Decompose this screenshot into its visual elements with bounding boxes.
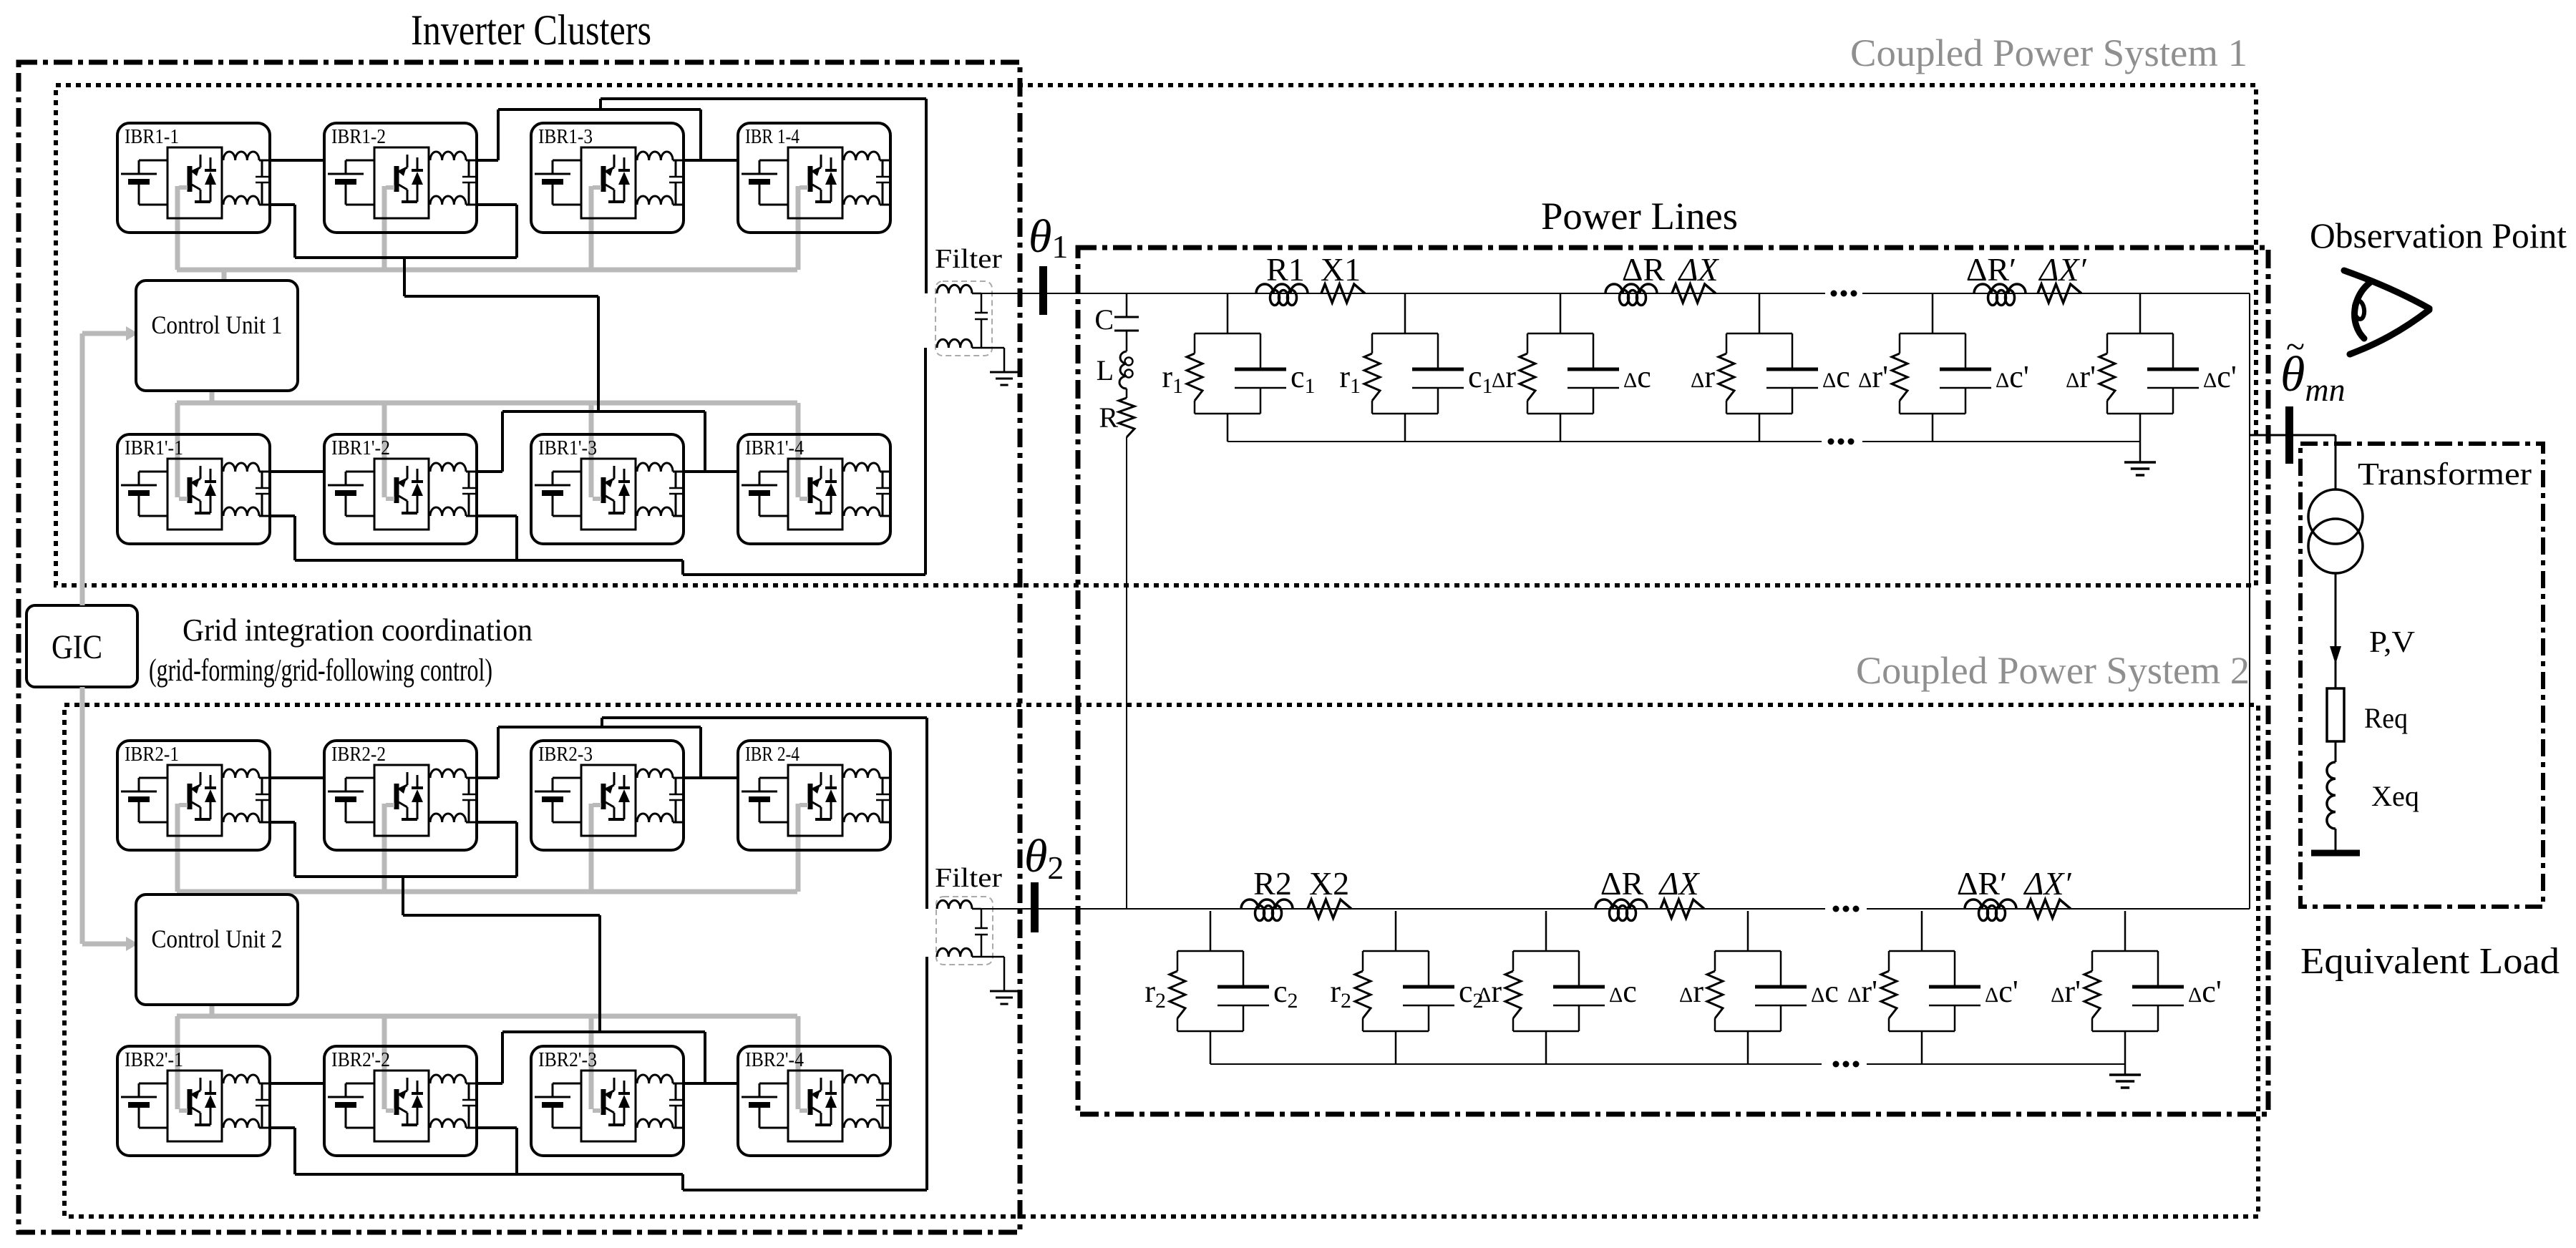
IBR converter block IBR1'-3: [531, 434, 684, 544]
power line 1 return conductor: [1228, 441, 2140, 442]
svg-text:ΔR: ΔR: [1600, 865, 1644, 902]
bus theta_mn: [2285, 406, 2293, 464]
IBR converter block IBR1'-4: [738, 434, 891, 544]
svg-text:IBR1-2: IBR1-2: [331, 126, 386, 148]
svg-text:IBR2'-4: IBR2'-4: [745, 1049, 804, 1071]
dash-dot box: Equivalent Load: [2300, 444, 2543, 907]
svg-text:Filter: Filter: [935, 863, 1002, 893]
svg-text:ΔX′: ΔX′: [2023, 865, 2071, 902]
wire: lower row top-output chain: [271, 1032, 737, 1083]
ground (filter): [990, 372, 1019, 385]
shunt section &#916;r||&#916;c: [1691, 293, 1850, 442]
svg-text:Equivalent Load: Equivalent Load: [2300, 941, 2560, 982]
control bus: Control Unit 2 to lower IBR gates: [177, 1005, 798, 1109]
wire: lower row bottom bus to filter: [271, 957, 927, 1190]
svg-text:L: L: [1097, 354, 1114, 386]
svg-text:IBR1-3: IBR1-3: [538, 126, 593, 148]
IBR converter block IBR2'-3: [531, 1046, 684, 1156]
shunt section r||c: [1339, 293, 1492, 442]
observation eye: [2344, 270, 2429, 354]
shunt section &#916;r||&#916;c: [1847, 911, 2018, 1064]
svg-text:IBR1'-4: IBR1'-4: [745, 437, 804, 459]
ellipsis top line 1: [1831, 291, 1857, 297]
svg-text:ΔX: ΔX: [1658, 865, 1700, 902]
svg-text:R1: R1: [1266, 251, 1305, 288]
control wire: GIC to Control Unit 2: [82, 687, 138, 951]
label Equivalent Load: [2300, 941, 2560, 982]
svg-text:IBR1-1: IBR1-1: [125, 126, 179, 148]
shunt section &#916;r||&#916;c: [2066, 293, 2237, 442]
Filter block: [936, 897, 1004, 991]
label Transformer: [2358, 457, 2532, 492]
power line 2 top conductor: [972, 908, 2250, 910]
svg-text:R: R: [1099, 401, 1118, 434]
shunt C-L-R branch: [1114, 293, 1139, 909]
ellipsis return line 1: [1828, 439, 1855, 445]
dotted box: Coupled Power System 1: [56, 85, 2256, 585]
svg-text:Grid integration coordination: Grid integration coordination: [183, 613, 533, 648]
svg-text:IBR1'-3: IBR1'-3: [538, 437, 597, 459]
IBR converter block IBR2'-4: [738, 1046, 891, 1156]
wire: upper row top-output chain: [271, 727, 737, 778]
IBR converter block IBR1'-1: [117, 434, 271, 544]
svg-text:IBR2'-3: IBR2'-3: [538, 1049, 597, 1071]
dash-dot box: Inverter Clusters: [19, 62, 1020, 1232]
bus theta2: [1024, 830, 1064, 932]
svg-text:X2: X2: [1309, 865, 1349, 902]
svg-text:IBR2-1: IBR2-1: [125, 744, 179, 766]
svg-text:Control Unit 1: Control Unit 1: [152, 311, 283, 339]
svg-text:IBR2'-2: IBR2'-2: [331, 1049, 390, 1071]
svg-text:Observation Point: Observation Point: [2310, 215, 2567, 255]
shunt section &#916;r||&#916;c: [1492, 293, 1651, 442]
node theta_mn label: [2280, 328, 2346, 408]
control bus: Control Unit 1 to upper IBR gates: [177, 186, 798, 281]
wire: upper row bottom bus: [271, 822, 600, 1032]
labels C L R: [1094, 303, 1118, 434]
IBR converter block IBR2'-1: [117, 1046, 271, 1156]
svg-text:IBR2'-1: IBR2'-1: [125, 1049, 183, 1071]
shunt section r||c: [1330, 911, 1483, 1064]
series impedance dR' dX' (line 2): [1957, 865, 2072, 921]
series impedance R2 X2: [1241, 865, 1351, 921]
wire: upper row top-output chain: [271, 109, 737, 160]
svg-text:R2: R2: [1253, 865, 1292, 902]
control bus: Control Unit 1 to lower IBR gates: [177, 391, 798, 497]
label Req: [2364, 702, 2408, 734]
svg-text:X1: X1: [1321, 251, 1361, 288]
wire: lower row bottom bus to filter: [271, 348, 925, 575]
label: Grid integration coordination: [183, 613, 533, 648]
wire: lower row top-output chain: [271, 411, 737, 472]
title: Power Lines: [1541, 195, 1738, 238]
svg-text:Inverter Clusters: Inverter Clusters: [411, 6, 651, 54]
wire with P,V arrow: [2330, 573, 2341, 688]
transformer: [2308, 489, 2363, 573]
Filter label: [935, 863, 1002, 893]
GIC box: [26, 605, 137, 687]
series impedance dR dX (line 1): [1605, 251, 1719, 306]
series impedance dR dX (line 2): [1595, 865, 1704, 921]
wire: branch to filter top: [601, 99, 926, 293]
wire: upper row bottom bus: [271, 205, 598, 411]
IBR converter block IBR1-1: [117, 123, 271, 233]
bus theta1: [1029, 210, 1068, 315]
IBR converter block IBR1-2: [324, 123, 477, 233]
svg-text:~: ~: [2286, 328, 2305, 366]
label P,V: [2369, 626, 2415, 659]
svg-text:Req: Req: [2364, 702, 2408, 734]
shunt section &#916;r||&#916;c: [1477, 911, 1637, 1064]
title: Inverter Clusters: [411, 6, 651, 54]
svg-text:GIC: GIC: [52, 628, 102, 666]
shunt section r||c: [1144, 911, 1298, 1064]
Control Unit 2: [136, 894, 298, 1005]
IBR converter block IBR2-2: [324, 741, 477, 850]
shunt section &#916;r||&#916;c: [2051, 911, 2222, 1064]
ground (filter): [990, 991, 1019, 1004]
label: Observation Point: [2310, 215, 2567, 255]
IBR converter block IBR 2-4: [738, 741, 891, 850]
power line 2 return conductor: [1210, 1063, 2125, 1065]
shunt section &#916;r||&#916;c: [1858, 293, 2029, 442]
wire: branch to filter top: [602, 718, 927, 909]
svg-text:(grid-forming/grid-following c: (grid-forming/grid-following control): [149, 653, 492, 688]
label Xeq: [2371, 780, 2419, 812]
svg-text:Coupled Power System 1: Coupled Power System 1: [1850, 31, 2247, 74]
label: Coupled Power System 1 (gray): [1850, 31, 2247, 74]
svg-text:IBR2-3: IBR2-3: [538, 744, 593, 766]
IBR converter block IBR2-1: [117, 741, 271, 850]
control wire: GIC to Control Unit 1: [82, 326, 138, 605]
shunt section &#916;r||&#916;c: [1679, 911, 1839, 1064]
dotted box: Coupled Power System 2: [64, 705, 2258, 1217]
Control Unit 1: [136, 281, 298, 391]
IBR converter block IBR1-3: [531, 123, 684, 233]
shunt section r||c: [1162, 293, 1315, 442]
label: Coupled Power System 2 (gray): [1856, 649, 2250, 692]
svg-text:ΔX: ΔX: [1677, 251, 1719, 288]
svg-text:Xeq: Xeq: [2371, 780, 2419, 812]
dash-dot box: Power Lines: [1078, 248, 2268, 1114]
svg-text:IBR1'-2: IBR1'-2: [331, 437, 390, 459]
svg-text:IBR 2-4: IBR 2-4: [745, 744, 799, 766]
svg-text:IBR1'-1: IBR1'-1: [125, 437, 183, 459]
svg-text:C: C: [1094, 303, 1114, 336]
wire: line 1 to line 2 right vertical: [2249, 293, 2250, 909]
ground (line 2 end): [2109, 1064, 2141, 1088]
svg-text:Control Unit 2: Control Unit 2: [152, 925, 283, 953]
svg-text:ΔR: ΔR: [1622, 251, 1666, 288]
Filter label: [935, 244, 1002, 274]
ground (line 1 end): [2124, 442, 2156, 475]
svg-text:IBR2-2: IBR2-2: [331, 744, 386, 766]
svg-text:Filter: Filter: [935, 244, 1002, 274]
svg-text:ΔR′: ΔR′: [1966, 251, 2016, 288]
svg-text:ΔR′: ΔR′: [1957, 865, 2007, 902]
svg-text:P,V: P,V: [2369, 626, 2415, 659]
Filter block: [935, 281, 1004, 372]
svg-text:Transformer: Transformer: [2358, 457, 2532, 492]
power line 1 top conductor: [972, 293, 2250, 294]
resistor Req: [2327, 688, 2344, 741]
IBR converter block IBR2'-2: [324, 1046, 477, 1156]
svg-text:ΔX′: ΔX′: [2038, 251, 2086, 288]
svg-text:IBR 1-4: IBR 1-4: [745, 126, 799, 148]
svg-text:Coupled Power System 2: Coupled Power System 2: [1856, 649, 2250, 692]
series impedance R1 X1: [1256, 251, 1365, 306]
IBR converter block IBR 1-4: [738, 123, 891, 233]
wire: line end to transformer: [2250, 435, 2336, 489]
IBR converter block IBR1'-2: [324, 434, 477, 544]
svg-text:Power Lines: Power Lines: [1541, 195, 1738, 238]
IBR converter block IBR2-3: [531, 741, 684, 850]
ground (equivalent load): [2311, 850, 2360, 857]
control bus: Control Unit 2 to upper IBR gates: [177, 804, 798, 894]
inductor Xeq: [2327, 741, 2336, 852]
ellipsis top line 2: [1833, 906, 1860, 912]
series impedance dR' dX' (line 1): [1966, 251, 2087, 306]
label: (grid-forming/grid-following control): [149, 653, 492, 688]
ellipsis return line 2: [1833, 1061, 1860, 1068]
